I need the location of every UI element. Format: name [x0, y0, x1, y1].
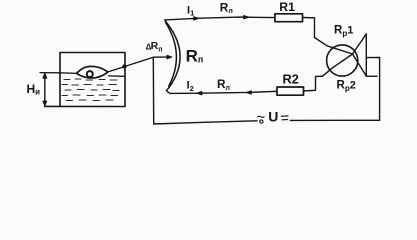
wire: meter common bracket	[366, 34, 377, 76]
svg-text:R2: R2	[283, 72, 299, 87]
wire: top lead and top line to R1	[165, 17, 275, 21]
wire: float link to wiper	[108, 57, 153, 72]
svg-text:U: U	[268, 108, 278, 124]
coil Rp1 diagonal (top-left to bottom-right)	[315, 38, 367, 77]
wire: wiper supply vertical	[152, 57, 154, 124]
potentiometer wiper arrow	[153, 56, 167, 58]
resistor R1	[275, 14, 303, 22]
potentiometer Rn (curved track)	[165, 21, 180, 88]
water hatching	[62, 79, 119, 101]
AC source terminal marks (right of U)	[281, 115, 288, 117]
AC source terminal marks (left of U)	[258, 116, 265, 117]
current arrow I1	[194, 17, 200, 21]
vessel (tank)	[45, 53, 125, 107]
wire: R1 to meter (step down)	[303, 18, 315, 38]
current arrow (mid bottom)	[246, 91, 252, 95]
wire: meter output to supply bus	[366, 57, 379, 120]
water level line	[40, 73, 125, 77]
coil Rp2 diagonal (bottom-left to top-right)	[323, 34, 367, 76]
Hn dimension line with arrows	[44, 73, 46, 107]
node: link crosses tank wall	[122, 64, 126, 68]
resistor R2	[277, 87, 304, 95]
wire: bottom supply bus	[154, 121, 257, 124]
wire: bottom lead from potentiometer	[166, 88, 170, 94]
ratiometer (crossed-coil meter) circle	[327, 45, 358, 76]
float pivot (donut)	[87, 71, 93, 77]
wire: R2 to meter (step up)	[304, 76, 323, 91]
current arrow (mid top)	[244, 15, 250, 19]
current arrow I2	[196, 91, 202, 95]
wire: bottom line to R2	[170, 91, 277, 93]
float (lens shape)	[77, 66, 108, 78]
svg-text:R1: R1	[279, 0, 295, 14]
